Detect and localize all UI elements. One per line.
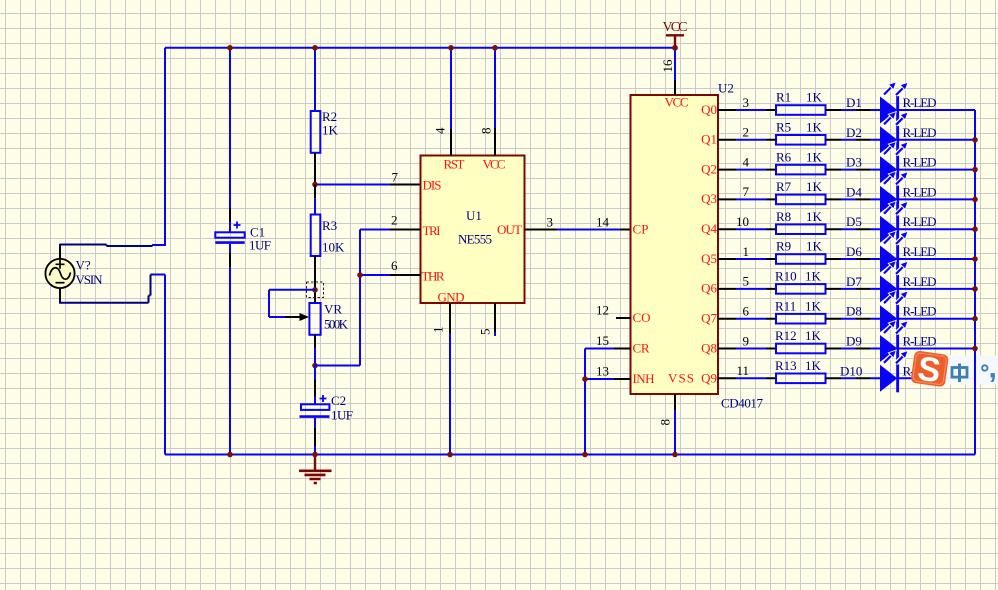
- svg-text:VCC: VCC: [483, 157, 506, 172]
- svg-text:1UF: 1UF: [331, 408, 353, 423]
- svg-text:VCC: VCC: [665, 95, 689, 110]
- svg-text:R-LED: R-LED: [903, 155, 937, 170]
- resistor R7 1K: [776, 179, 826, 204]
- LED D8 R-LED: [846, 291, 937, 333]
- resistor R8 1K: [776, 209, 826, 234]
- svg-text:CR: CR: [633, 340, 650, 355]
- wire C2 to ground rail: [314, 418, 316, 455]
- svg-text:1K: 1K: [806, 239, 823, 254]
- svg-text:R-LED: R-LED: [903, 125, 937, 140]
- svg-text:R-LED: R-LED: [903, 95, 937, 110]
- svg-text:2: 2: [743, 125, 750, 140]
- svg-text:R13: R13: [775, 358, 797, 373]
- resistor R3 10K: [311, 215, 345, 257]
- U2 right pin labels Q0-Q8: [701, 102, 717, 355]
- junction TRI/THR link: [357, 272, 363, 278]
- svg-text:500K: 500K: [324, 317, 349, 332]
- svg-text:D6: D6: [846, 244, 862, 259]
- svg-text:Q5: Q5: [701, 251, 717, 266]
- junction top rail pin8: [492, 45, 498, 51]
- svg-text:15: 15: [596, 333, 609, 348]
- wire R3 to VR junction: [314, 256, 316, 303]
- svg-text:D2: D2: [846, 125, 862, 140]
- resistor R5 1K: [776, 120, 826, 145]
- wire bottom ground rail: [165, 454, 975, 456]
- junction right rail row D4: [972, 197, 978, 203]
- svg-text:1K: 1K: [806, 209, 823, 224]
- wire VCC rail to C1: [229, 48, 231, 233]
- svg-text:R7: R7: [776, 179, 792, 194]
- wire THR (pin 6): [360, 274, 390, 276]
- svg-text:R5: R5: [776, 120, 791, 135]
- wire DIS (pin 7): [314, 184, 390, 186]
- op-amp/timer U1 NE555 body: [421, 156, 525, 304]
- junction INH: [582, 376, 588, 382]
- junction bottom rail CR/INH: [582, 452, 588, 458]
- wire LED D5 to right rail: [899, 228, 975, 230]
- wire top VCC rail: [165, 47, 675, 49]
- capacitor C2 1UF: [300, 393, 354, 423]
- wire VCC rail to VCC pin 8: [494, 48, 496, 128]
- junction R3/VR wiper: [312, 287, 318, 293]
- svg-text:,: ,: [989, 352, 997, 385]
- junction bottom rail C2: [312, 452, 318, 458]
- svg-text:D7: D7: [846, 274, 862, 289]
- selection dashed box: [307, 282, 324, 298]
- watermark zhong glyph: [952, 364, 967, 383]
- svg-text:VSS: VSS: [668, 371, 694, 386]
- svg-text:U2: U2: [718, 81, 734, 96]
- svg-text:RST: RST: [444, 157, 465, 172]
- svg-text:V?: V?: [76, 258, 91, 273]
- wire right cathode rail: [974, 110, 976, 455]
- svg-text:D3: D3: [846, 155, 862, 170]
- svg-text:R10: R10: [775, 269, 797, 284]
- junction right rail row D3: [972, 167, 978, 173]
- svg-text:D10: D10: [840, 363, 862, 378]
- wire VCC rail to RST pin 4: [450, 48, 452, 129]
- potentiometer VR 500K: [285, 302, 349, 335]
- wire R2 to DIS junction: [314, 153, 316, 185]
- LED D5 R-LED: [846, 201, 937, 243]
- wire VCC rail to R2: [314, 48, 316, 111]
- svg-text:R9: R9: [776, 239, 791, 254]
- wire LED D6 to right rail: [899, 258, 975, 260]
- svg-text:1K: 1K: [806, 149, 823, 164]
- wire GND pin 1 to ground rail: [449, 303, 451, 333]
- svg-text:10: 10: [736, 214, 749, 229]
- voltage source V? VSIN: [45, 244, 152, 303]
- svg-text:NE555: NE555: [458, 232, 492, 247]
- resistor R13 1K: [775, 358, 826, 383]
- junction right rail row D2: [972, 137, 978, 143]
- wire resistor R6 to LED D3: [826, 169, 881, 171]
- svg-text:R1: R1: [776, 90, 791, 105]
- svg-text:CO: CO: [633, 310, 651, 325]
- svg-text:6: 6: [391, 258, 398, 273]
- wire resistor R13 to LED D10: [826, 377, 881, 379]
- wire VR wiper loop: [269, 290, 315, 317]
- svg-text:Q7: Q7: [701, 311, 717, 326]
- svg-text:D9: D9: [846, 334, 862, 349]
- junction top rail C1: [227, 45, 233, 51]
- junction VR/C2/THR-link: [312, 363, 318, 369]
- wire left bottom vertical (x=165) to ground rail: [152, 275, 165, 455]
- wire U2 Q8 pin 9 to resistor R12: [718, 333, 776, 348]
- resistor R2 1K: [311, 109, 339, 153]
- watermark Sogou S logo: [910, 349, 949, 391]
- svg-text:11: 11: [736, 363, 749, 378]
- svg-text:R-LED: R-LED: [903, 184, 937, 199]
- wire LED D4 to right rail: [899, 198, 975, 200]
- U2 left pin labels: [633, 95, 718, 387]
- wire U2 Q1 pin 2 to resistor R5: [718, 125, 776, 140]
- LED D6 R-LED: [846, 231, 937, 273]
- svg-text:C2: C2: [331, 393, 346, 408]
- wire resistor R7 to LED D4: [826, 198, 881, 200]
- svg-text:CD4017: CD4017: [721, 396, 764, 411]
- wire LED D9 to right rail: [899, 348, 975, 350]
- resistor R12 1K: [775, 328, 826, 353]
- resistor R11 1K: [775, 298, 826, 323]
- wire LED D3 to right rail: [899, 169, 975, 171]
- svg-text:16: 16: [660, 59, 675, 73]
- svg-text:10K: 10K: [322, 240, 345, 255]
- svg-text:9: 9: [743, 333, 750, 348]
- svg-text:CP: CP: [633, 221, 649, 236]
- svg-text:4: 4: [433, 127, 448, 134]
- wire LED D7 to right rail: [899, 288, 975, 290]
- svg-text:R8: R8: [776, 209, 791, 224]
- wire resistor R10 to LED D7: [826, 288, 881, 290]
- svg-text:D8: D8: [846, 304, 862, 319]
- svg-text:R-LED: R-LED: [903, 274, 937, 289]
- wire U2 Q2 pin 4 to resistor R6: [718, 154, 776, 169]
- junction bottom rail U1 GND: [447, 452, 453, 458]
- svg-text:THR: THR: [422, 268, 445, 283]
- wire TRI (pin 2): [360, 229, 390, 231]
- resistor R9 1K: [776, 239, 826, 264]
- svg-text:5: 5: [478, 329, 493, 336]
- pin 5 stub (open): [494, 303, 496, 332]
- svg-text:Q2: Q2: [701, 161, 717, 176]
- capacitor C1 1UF: [215, 222, 271, 253]
- resistor R10 1K: [775, 269, 826, 294]
- svg-text:1K: 1K: [806, 179, 823, 194]
- svg-text:1: 1: [743, 244, 750, 259]
- wire OUT (pin 3) to CP (pin 14): [525, 229, 631, 231]
- svg-text:7: 7: [743, 184, 750, 199]
- svg-text:Q0: Q0: [701, 102, 717, 117]
- wire VR to C2: [314, 335, 316, 348]
- svg-text:1K: 1K: [805, 358, 822, 373]
- LED D7 R-LED: [846, 261, 937, 303]
- svg-text:14: 14: [596, 215, 610, 230]
- svg-text:5: 5: [743, 274, 750, 289]
- svg-text:3: 3: [743, 95, 750, 110]
- svg-text:R-LED: R-LED: [903, 214, 937, 229]
- svg-text:8: 8: [658, 419, 673, 426]
- svg-text:Q4: Q4: [701, 221, 717, 236]
- wire CR/INH to ground rail: [584, 349, 586, 455]
- svg-text:Q9: Q9: [701, 371, 717, 386]
- wire U2 Q4 pin 10 to resistor R8: [718, 214, 776, 229]
- svg-text:13: 13: [596, 364, 609, 379]
- resistor R1 1K: [776, 90, 826, 115]
- svg-text:1: 1: [431, 327, 446, 334]
- svg-text:R3: R3: [322, 218, 337, 233]
- svg-text:Q6: Q6: [701, 281, 717, 296]
- LED D9 R-LED: [846, 320, 937, 362]
- svg-text:VCC: VCC: [663, 20, 688, 35]
- wire resistor R12 to LED D9: [826, 348, 881, 350]
- svg-text:7: 7: [392, 170, 399, 185]
- wire LED D8 to right rail: [899, 318, 975, 320]
- junction right rail row D8: [972, 316, 978, 322]
- resistor R6 1K: [776, 149, 826, 174]
- junction right rail row D5: [972, 226, 978, 232]
- wire U2 Q7 pin 6 to resistor R11: [718, 304, 776, 319]
- watermark input-method bar: [936, 356, 998, 385]
- junction right rail row D7: [972, 286, 978, 292]
- svg-text:2: 2: [391, 213, 398, 228]
- wire VSS pin 8 to ground rail: [674, 394, 676, 410]
- LED D4 R-LED: [846, 171, 937, 213]
- svg-text:GND: GND: [438, 290, 465, 305]
- junction top rail pin4: [448, 45, 454, 51]
- svg-text:12: 12: [596, 303, 609, 318]
- wire resistor R9 to LED D6: [826, 258, 881, 260]
- svg-text:1K: 1K: [805, 269, 822, 284]
- wire U2 Q5 pin 1 to resistor R9: [718, 244, 776, 259]
- wire left top vertical (x=165): [152, 48, 166, 245]
- wire resistor R11 to LED D8: [826, 318, 881, 320]
- junction top rail R2: [312, 45, 318, 51]
- svg-text:Q3: Q3: [701, 191, 717, 206]
- counter U2 CD4017 body: [631, 95, 719, 394]
- svg-text:3: 3: [547, 215, 554, 230]
- wire VCC to pin 16: [674, 48, 676, 80]
- svg-text:Q1: Q1: [701, 132, 717, 147]
- svg-text:1K: 1K: [805, 328, 822, 343]
- wire U2 Q3 pin 7 to resistor R7: [718, 184, 776, 199]
- junction bottom rail C1: [227, 452, 233, 458]
- svg-text:DIS: DIS: [423, 177, 442, 192]
- svg-text:R-LED: R-LED: [903, 334, 937, 349]
- svg-text:D5: D5: [846, 214, 862, 229]
- svg-text:R6: R6: [776, 149, 792, 164]
- svg-text:R11: R11: [775, 298, 796, 313]
- LED D2 R-LED: [846, 112, 937, 154]
- wire C1 to ground rail: [229, 244, 231, 455]
- svg-text:6: 6: [743, 304, 750, 319]
- CO pin 12 stub: [616, 317, 631, 319]
- svg-text:VR: VR: [324, 302, 342, 317]
- svg-text:OUT: OUT: [497, 222, 522, 237]
- svg-text:INH: INH: [633, 371, 655, 386]
- junction R2/DIS: [312, 182, 318, 188]
- svg-text:1K: 1K: [805, 298, 822, 313]
- svg-text:1UF: 1UF: [249, 238, 271, 253]
- svg-text:D1: D1: [846, 95, 862, 110]
- svg-text:R-LED: R-LED: [903, 244, 937, 259]
- svg-text:1K: 1K: [806, 90, 823, 105]
- svg-text:R12: R12: [775, 328, 797, 343]
- wire LED D2 to right rail: [899, 139, 975, 141]
- svg-text:U1: U1: [466, 208, 482, 223]
- svg-text:TRI: TRI: [423, 223, 441, 238]
- wire CR pin 15: [585, 348, 614, 350]
- U1 labels: [422, 157, 523, 305]
- wire LED D10 to right rail: [899, 377, 975, 379]
- svg-text:D4: D4: [846, 184, 862, 199]
- svg-text:1K: 1K: [322, 123, 339, 138]
- svg-text:R-LED: R-LED: [903, 304, 937, 319]
- wire resistor R8 to LED D5: [826, 228, 881, 230]
- power symbol VCC: [663, 20, 688, 48]
- watermark degree mark: [982, 365, 987, 370]
- svg-text:1K: 1K: [806, 120, 823, 135]
- wire resistor R1 to LED D1: [826, 109, 881, 111]
- junction right rail row D9: [972, 346, 978, 352]
- LED D10 R-LED: [840, 350, 937, 392]
- wire U2 Q6 pin 5 to resistor R10: [718, 274, 776, 289]
- junction bottom rail VSS: [672, 452, 678, 458]
- junction right rail row D6: [972, 256, 978, 262]
- wire LED D1 to right rail: [899, 109, 975, 111]
- wire resistor R5 to LED D2: [826, 139, 881, 141]
- wire TRI-THR vertical link: [315, 230, 360, 366]
- wire U2 Q9 pin 11 to resistor R13: [718, 363, 776, 378]
- wire INH pin 13: [585, 378, 614, 380]
- junction VCC stem: [672, 45, 678, 51]
- LED D1 R-LED: [846, 82, 937, 124]
- svg-text:VSIN: VSIN: [76, 272, 104, 287]
- wire U2 Q0 pin 3 to resistor R1: [718, 95, 776, 110]
- svg-text:8: 8: [479, 128, 494, 135]
- svg-text:Q8: Q8: [701, 340, 717, 355]
- ground symbol: [299, 455, 332, 484]
- LED D3 R-LED: [846, 141, 937, 183]
- svg-text:4: 4: [743, 154, 750, 169]
